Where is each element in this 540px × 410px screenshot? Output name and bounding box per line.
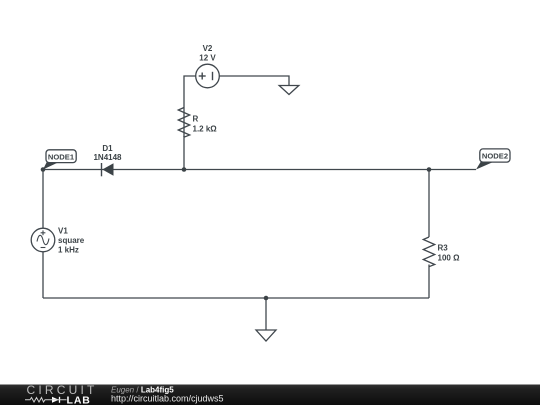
CircuitLab logo diode xyxy=(52,397,59,403)
wire V2 branch: R top up, over to V2 left xyxy=(184,76,196,137)
diode D1 (pointing left) xyxy=(101,163,103,176)
svg-text:100 Ω: 100 Ω xyxy=(438,254,461,263)
wire V2 right to ground corner xyxy=(219,76,289,86)
svg-text:V2: V2 xyxy=(203,44,213,53)
voltage source V2 (circle with + |) xyxy=(196,64,220,88)
junction dot ground stub on bottom rail xyxy=(264,296,269,301)
CircuitLab logo resistor squiggle xyxy=(25,398,50,403)
ground (top, right of V2) xyxy=(279,86,299,95)
svg-text:R: R xyxy=(193,115,199,124)
junction dot R branch on top rail xyxy=(182,167,187,172)
voltage source V1 (circle with sine, + -) xyxy=(31,228,55,252)
svg-text:R3: R3 xyxy=(438,244,449,253)
svg-text:square: square xyxy=(58,236,85,245)
wire bottom rail xyxy=(43,297,429,299)
node NODE2 flag xyxy=(476,161,492,170)
svg-text:D1: D1 xyxy=(102,144,113,153)
ground (bottom center) xyxy=(256,330,276,341)
svg-text:V1: V1 xyxy=(58,227,68,236)
svg-text:1.2 kΩ: 1.2 kΩ xyxy=(193,125,218,134)
svg-text:NODE1: NODE1 xyxy=(48,152,75,161)
wire left vertical lower (V1 to bottom rail) xyxy=(42,252,44,298)
wire ground stub bottom center xyxy=(265,298,267,330)
junction dot R3 branch on top rail xyxy=(427,167,432,172)
svg-text:1N4148: 1N4148 xyxy=(93,153,122,162)
junction dot at node A (NODE1 corner) xyxy=(41,167,46,172)
svg-text:12 V: 12 V xyxy=(199,54,216,63)
wire top horizontal NODE1 to NODE2 xyxy=(43,169,476,171)
node NODE1 flag xyxy=(43,161,58,170)
svg-text:http://circuitlab.com/cjudws5: http://circuitlab.com/cjudws5 xyxy=(111,393,224,403)
wire R bottom to top rail xyxy=(183,136,185,170)
wire right vertical lower (R3 to bottom rail) xyxy=(428,265,430,299)
svg-text:1 kHz: 1 kHz xyxy=(58,245,79,254)
svg-text:NODE2: NODE2 xyxy=(482,152,508,161)
resistor R3 (vertical zigzag) xyxy=(423,237,434,267)
svg-text:LAB: LAB xyxy=(67,394,91,405)
resistor R (vertical zigzag) xyxy=(178,108,189,138)
wire left vertical upper (node1 down to V1) xyxy=(42,170,44,229)
wire right vertical upper (top rail to R3) xyxy=(428,170,430,238)
